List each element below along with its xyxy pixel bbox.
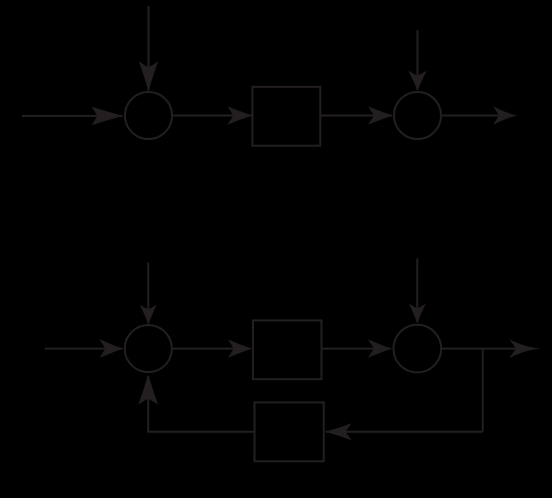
block G2: forward-path controller box (bottom)	[253, 320, 322, 379]
arrowhead: into summing junction S2	[368, 106, 393, 124]
summing junction S2 (top-right circle)	[394, 92, 441, 139]
arrowhead: reference input into S3	[99, 339, 123, 358]
arrowhead: disturbance-1 into S1	[139, 62, 158, 92]
wire: bottom disturbance-1 input line into summing junction S3	[147, 263, 149, 324]
arrowhead: into feedback block H1	[325, 423, 352, 440]
arrowhead: bottom output arrow	[509, 339, 541, 358]
wire: top disturbance-1 input line into summing junction S1	[148, 6, 150, 91]
wire: top disturbance-2 input line into summing junction S2	[417, 30, 419, 90]
wire: bottom reference input line into summing junction S3	[45, 348, 122, 350]
wire: S1 output to controller block G1	[172, 115, 251, 117]
wire: top reference input line into summing junction S1	[22, 115, 123, 117]
arrowhead: feedback into S3 (pointing up)	[138, 375, 158, 405]
wire: G2 output to summing junction S4	[322, 348, 392, 350]
arrowhead: disturbance-1 into S3	[140, 305, 157, 325]
wire: bottom output line from S4 with feedback takeoff	[441, 348, 530, 350]
block H1: feedback-path box (bottom)	[255, 402, 324, 461]
wire: top output line from S2	[441, 115, 509, 117]
wire: bottom disturbance-2 input line into summing junction S4	[416, 259, 418, 323]
arrowhead: disturbance-2 into S2	[408, 71, 426, 91]
wire: G1 output to summing junction S2	[320, 115, 392, 117]
arrowhead: top output arrow	[493, 106, 517, 125]
arrowhead: into controller block G1	[227, 106, 252, 124]
arrowhead: into summing junction S4	[368, 339, 392, 357]
summing junction S1 (top-left circle)	[125, 92, 172, 139]
arrowhead: into forward block G2	[228, 339, 252, 357]
summing junction S4 (bottom-right circle)	[394, 325, 442, 373]
arrowhead: reference input into S1	[92, 107, 124, 126]
summing junction S3 (bottom-left circle)	[125, 325, 172, 372]
wire: H1 output feedback line left and up to S3	[148, 376, 254, 432]
block G1: controller/process box (top)	[252, 87, 320, 146]
arrowhead: disturbance-2 into S4	[409, 304, 426, 324]
wire: S3 output to forward block G2	[172, 348, 251, 350]
node: feedback takeoff point / wire down from output	[482, 349, 484, 432]
wire: feedback line into feedback block H1	[326, 431, 483, 433]
